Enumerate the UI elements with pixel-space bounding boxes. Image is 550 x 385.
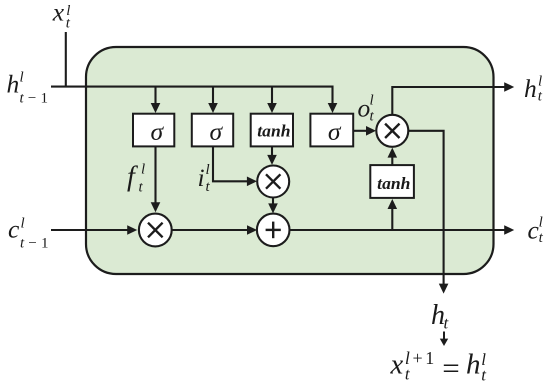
svg-text:l: l	[21, 216, 25, 232]
svg-text:t−1: t−1	[20, 236, 53, 252]
wire: x_t input vertical	[65, 32, 67, 87]
wire: P to c_t output	[290, 229, 505, 231]
wire branch to sigma box1	[154, 87, 156, 104]
svg-text:σ: σ	[328, 117, 342, 146]
svg-text:c: c	[8, 215, 20, 244]
wire: box1 to multiply M1	[154, 146, 156, 202]
wire: box3 to multiply M2	[271, 146, 273, 155]
svg-text:l: l	[20, 70, 24, 86]
small arrow below h_t	[443, 332, 445, 340]
multiply node M1 (forget gate)	[139, 214, 172, 247]
svg-text:tanh: tanh	[257, 122, 290, 141]
arrow into sigma box4	[328, 103, 338, 113]
svg-text:l: l	[538, 74, 542, 90]
svg-text:l: l	[141, 162, 145, 178]
plus node P (cell state sum)	[257, 214, 290, 247]
svg-text:t: t	[538, 88, 543, 104]
svg-text:h: h	[524, 74, 537, 103]
tanh gate box3	[251, 114, 293, 147]
multiply node M3 (output gate)	[376, 115, 408, 147]
wire: M3 right then down to h_t bottom output	[409, 131, 444, 284]
svg-text:tanh: tanh	[377, 174, 410, 193]
svg-text:o: o	[358, 94, 371, 123]
svg-text:x: x	[52, 0, 65, 26]
wire: M3 up and right to h_t output	[392, 87, 504, 115]
svg-text:h: h	[7, 70, 20, 99]
wire: tanh box5 up to M3	[391, 157, 393, 165]
svg-text:t−1: t−1	[20, 91, 53, 107]
sigma gate box2 (input)	[192, 114, 233, 147]
svg-text:t: t	[481, 366, 487, 385]
svg-text:h: h	[466, 348, 481, 380]
multiply node M2 (input gate)	[257, 166, 289, 198]
tanh box5 (cell output activation)	[370, 165, 414, 198]
wire: box4 right into M3	[353, 130, 366, 132]
svg-text:t: t	[444, 314, 450, 333]
wire: M1 to P	[172, 229, 248, 231]
wire: c_{t-1} line into M1	[51, 229, 128, 231]
wire branch to sigma box2	[212, 87, 214, 104]
svg-text:l+1: l+1	[405, 348, 437, 368]
svg-text:t: t	[539, 230, 544, 246]
wire: box2 down and right to multiply M2	[213, 146, 248, 181]
svg-text:σ: σ	[151, 117, 165, 146]
LSTM cell body	[86, 47, 494, 274]
svg-text:l: l	[539, 215, 543, 231]
sigma gate box1 (forget)	[133, 114, 174, 147]
svg-text:σ: σ	[210, 117, 224, 146]
svg-text:l: l	[370, 93, 374, 109]
sigma gate box4 (output)	[310, 114, 353, 147]
wire: branch up to tanh box5	[391, 209, 393, 230]
wire: M2 down to plus P	[272, 198, 274, 205]
svg-text:x: x	[390, 349, 404, 380]
svg-text:=: =	[442, 351, 459, 385]
svg-text:l: l	[206, 162, 210, 178]
wire: h_{t-1} horizontal line	[51, 87, 333, 104]
wire branch to tanh box3	[271, 87, 273, 104]
svg-text:i: i	[198, 163, 205, 192]
